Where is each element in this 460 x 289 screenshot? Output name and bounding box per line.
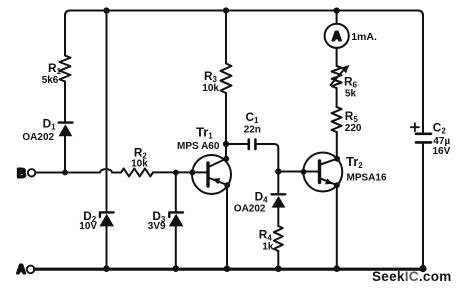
node Tr1 base [190,170,196,176]
svg-text:1k: 1k [262,241,274,252]
wire C1 node to C1 [226,143,248,145]
node A rail / R4 [275,265,282,272]
svg-text:3V9: 3V9 [148,221,166,232]
node Tr2 base [301,169,307,175]
wire D4 to R4 [277,208,279,226]
wire C2 to A rail [422,142,424,268]
resistor R2 [121,168,153,176]
svg-text:C1: C1 [246,110,260,125]
svg-text:MPSA16: MPSA16 [347,173,387,184]
svg-text:22n: 22n [244,125,261,136]
wire R4 to A rail [277,251,279,269]
wire D3 branch [175,173,177,213]
wire D1 to B line [64,136,66,173]
label C2 plus sign [411,123,419,131]
svg-text:R4: R4 [259,228,273,243]
svg-text:A: A [332,29,341,43]
capacitor C1 [249,140,256,149]
node D3 tap [173,170,179,176]
meter M1 ammeter [325,24,349,48]
wire C1 to D4 branch corner [255,144,278,172]
wire D3 to A rail [175,226,177,268]
resistor R5 [332,107,342,132]
node Tr2 emitter [334,182,340,188]
wire R3 to C1 node [225,93,227,144]
svg-text:SeekIC.com: SeekIC.com [372,269,452,284]
node top rail / meter branch [334,7,340,13]
svg-text:A: A [17,262,26,276]
terminal B [17,166,35,180]
svg-text:R3: R3 [204,69,218,84]
node A rail / D2 [103,265,110,272]
svg-text:D4: D4 [255,189,269,204]
wire meter branch upper [336,11,338,24]
wire R1 to D1 [64,82,66,123]
node A rail right end [419,265,426,272]
svg-text:16V: 16V [433,146,451,157]
wire top rail [65,11,423,17]
wire R2 to Tr1 base [153,171,207,173]
svg-text:OA202: OA202 [234,204,266,215]
svg-text:OA202: OA202 [22,132,54,143]
wire C1 node to Tr1 collector [225,144,227,159]
svg-text:R5: R5 [345,109,359,124]
wire right branch upper [422,14,424,133]
svg-text:10V: 10V [79,221,97,232]
node Tr1 collector [223,156,229,162]
svg-text:R6: R6 [344,74,358,89]
svg-text:5k6: 5k6 [42,75,59,86]
svg-text:10k: 10k [202,83,219,94]
diode D3 zener [169,212,184,226]
svg-text:D1: D1 [43,117,57,132]
node C1 tap [223,141,229,147]
node A rail / Tr2 emitter [334,265,341,272]
node Tr1 emitter [224,182,230,188]
transistor Tr1 [192,155,231,194]
diode D4 [272,194,286,207]
wire D4 branch [277,172,279,195]
wire Tr2 emitter to A rail [336,185,338,268]
node B line / D1 branch [62,170,68,176]
svg-text:C2: C2 [433,121,447,136]
svg-text:220: 220 [345,123,362,134]
resistor R1 [60,56,71,82]
diode D2 zener [99,212,114,226]
node top rail / R3 branch [223,7,229,13]
capacitor C2 [416,134,431,143]
resistor R3 [221,64,232,94]
node A rail / Tr1 emitter [224,265,231,272]
wire meter to R6 [336,48,338,66]
node A rail / D3 [173,265,180,272]
wire D2 branch upper [106,11,108,213]
svg-text:5k: 5k [345,89,357,100]
svg-text:B: B [17,166,26,180]
wire A rail [35,268,424,271]
wire R6 to R5 [336,88,338,107]
svg-text:MPS A60: MPS A60 [177,141,220,152]
wire R5 to Tr2 collector [336,132,338,159]
diode D1 [59,123,73,137]
wire Tr1 emitter to A rail [226,185,228,268]
svg-text:10k: 10k [131,159,148,170]
wire B line with hop over D2 branch [35,169,121,172]
wire D2 to A rail [106,226,108,268]
transistor Tr2 [303,153,342,192]
svg-text:R1: R1 [48,61,62,76]
svg-text:1mA.: 1mA. [351,31,377,43]
svg-text:Tr2: Tr2 [346,154,363,170]
wire Tr2 base [278,171,318,173]
svg-text:Tr1: Tr1 [196,125,213,141]
resistor R6 variable [331,65,350,88]
node D4 / Tr2 base [275,168,281,174]
resistor R4 [274,226,283,251]
node Tr2 collector [334,156,340,162]
wire R1 branch upper [64,14,66,56]
node top rail / D2 branch [103,7,109,13]
terminal A [17,262,35,276]
wire R3 branch upper [225,11,227,64]
